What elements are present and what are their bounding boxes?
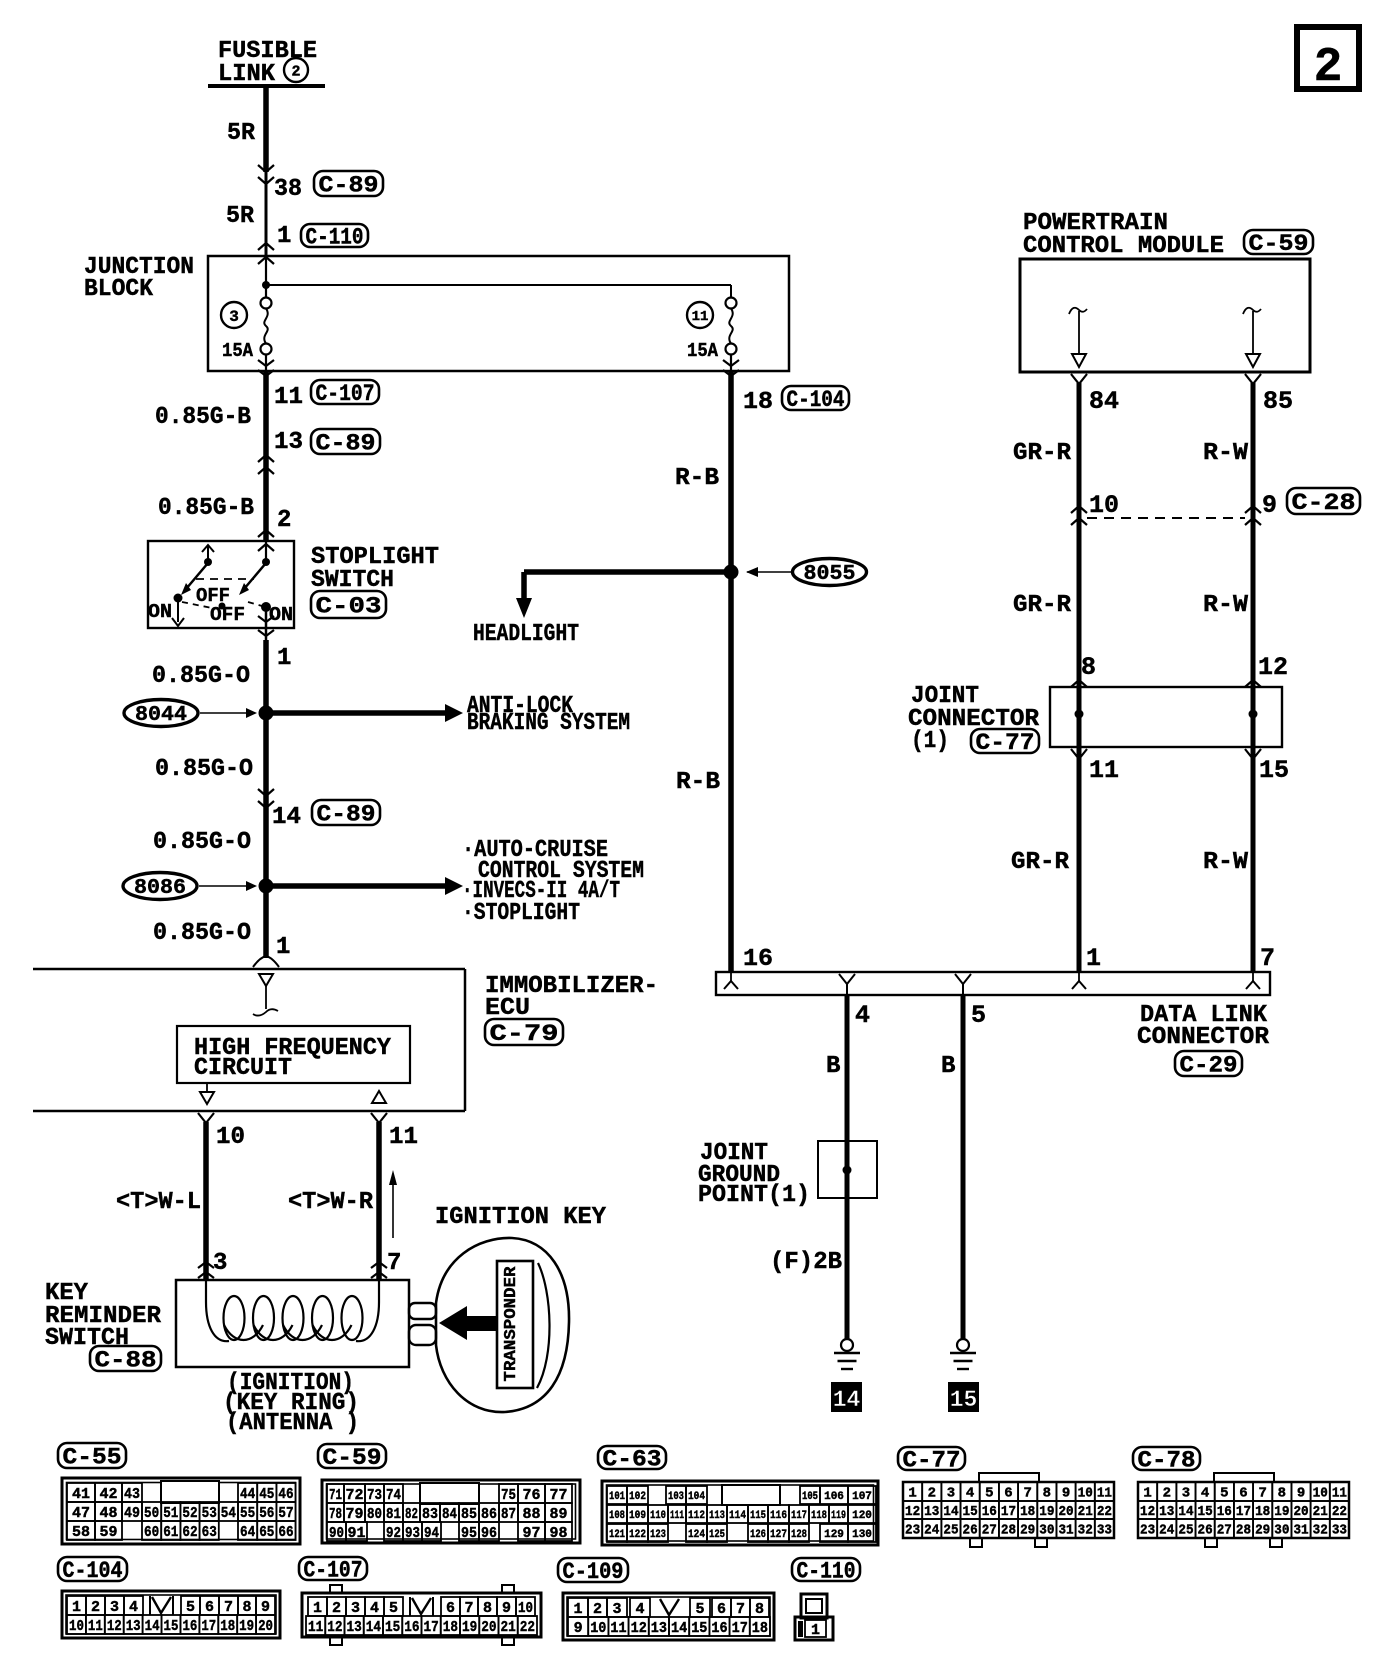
svg-text:8: 8 — [1278, 1486, 1286, 1502]
svg-text:GR-R: GR-R — [1013, 592, 1072, 619]
svg-text:118: 118 — [811, 1510, 827, 1522]
svg-text:108: 108 — [609, 1510, 625, 1522]
svg-text:C-77: C-77 — [903, 1447, 961, 1473]
svg-text:C-77: C-77 — [976, 730, 1035, 756]
svg-text:POINT(1): POINT(1) — [698, 1182, 810, 1209]
svg-text:26: 26 — [963, 1523, 978, 1539]
svg-text:4: 4 — [966, 1486, 974, 1502]
svg-text:113: 113 — [709, 1510, 725, 1522]
svg-text:C-88: C-88 — [95, 1347, 157, 1373]
svg-text:10: 10 — [590, 1620, 606, 1637]
svg-text:126: 126 — [750, 1529, 766, 1541]
svg-text:55: 55 — [240, 1505, 255, 1522]
svg-text:114: 114 — [729, 1510, 746, 1522]
svg-text:51: 51 — [163, 1505, 178, 1522]
svg-text:14: 14 — [272, 804, 301, 831]
svg-text:0.85G-B: 0.85G-B — [155, 404, 251, 431]
svg-text:47: 47 — [72, 1505, 90, 1522]
svg-text:48: 48 — [99, 1505, 117, 1522]
svg-text:7: 7 — [1023, 1486, 1031, 1502]
svg-text:15A: 15A — [687, 340, 719, 362]
svg-text:HEADLIGHT: HEADLIGHT — [473, 621, 579, 648]
svg-text:C-89: C-89 — [316, 430, 376, 456]
svg-text:66: 66 — [278, 1524, 293, 1541]
svg-text:15: 15 — [950, 1387, 978, 1413]
svg-text:C-89: C-89 — [319, 172, 379, 198]
svg-text:24: 24 — [924, 1523, 939, 1539]
svg-text:80: 80 — [367, 1506, 382, 1523]
svg-text:7: 7 — [224, 1599, 233, 1616]
svg-text:27: 27 — [982, 1523, 997, 1539]
svg-text:R-W: R-W — [1203, 592, 1249, 619]
svg-text:25: 25 — [943, 1523, 958, 1539]
svg-text:10: 10 — [1089, 491, 1119, 520]
svg-text:C-107: C-107 — [316, 381, 375, 407]
svg-text:88: 88 — [522, 1506, 540, 1523]
svg-text:11: 11 — [389, 1124, 418, 1151]
svg-text:0.85G-O: 0.85G-O — [155, 756, 253, 783]
svg-text:12: 12 — [327, 1619, 342, 1636]
svg-text:C-110: C-110 — [797, 1558, 856, 1584]
svg-text:17: 17 — [1236, 1504, 1251, 1520]
svg-text:16: 16 — [404, 1619, 419, 1636]
svg-text:4: 4 — [635, 1601, 644, 1618]
svg-text:C-29: C-29 — [1180, 1052, 1238, 1078]
svg-text:CIRCUIT: CIRCUIT — [194, 1055, 292, 1082]
svg-text:33: 33 — [1332, 1523, 1347, 1539]
svg-text:1: 1 — [313, 1600, 322, 1617]
svg-text:0.85G-O: 0.85G-O — [152, 663, 250, 690]
svg-text:4: 4 — [855, 1001, 870, 1030]
svg-text:C-89: C-89 — [317, 801, 376, 827]
svg-text:32: 32 — [1313, 1523, 1328, 1539]
svg-text:21: 21 — [501, 1619, 516, 1636]
svg-text:123: 123 — [650, 1529, 666, 1541]
svg-text:15: 15 — [963, 1504, 978, 1520]
svg-text:77: 77 — [549, 1487, 567, 1504]
svg-text:<T>W-R: <T>W-R — [288, 1189, 374, 1216]
svg-text:7: 7 — [736, 1601, 745, 1618]
svg-text:22: 22 — [1097, 1504, 1112, 1520]
svg-text:1: 1 — [277, 645, 291, 672]
svg-text:94: 94 — [424, 1525, 439, 1542]
svg-text:119: 119 — [831, 1510, 846, 1522]
svg-text:96: 96 — [481, 1525, 497, 1542]
svg-text:16: 16 — [182, 1618, 197, 1635]
svg-text:8055: 8055 — [804, 563, 856, 586]
svg-text:2: 2 — [1163, 1486, 1171, 1502]
svg-text:64: 64 — [240, 1524, 255, 1541]
svg-text:11: 11 — [274, 384, 303, 411]
svg-text:BLOCK: BLOCK — [84, 276, 154, 303]
svg-text:C-107: C-107 — [304, 1557, 363, 1583]
svg-text:22: 22 — [1332, 1504, 1347, 1520]
svg-text:2: 2 — [291, 63, 300, 80]
svg-text:C-28: C-28 — [1292, 490, 1356, 516]
svg-text:26: 26 — [1198, 1523, 1213, 1539]
svg-text:78: 78 — [329, 1506, 342, 1523]
svg-text:1: 1 — [1086, 944, 1101, 973]
svg-text:19: 19 — [1274, 1504, 1289, 1520]
svg-text:25: 25 — [1178, 1523, 1193, 1539]
svg-text:61: 61 — [163, 1524, 178, 1541]
svg-text:115: 115 — [750, 1510, 766, 1522]
svg-text:23: 23 — [1140, 1523, 1155, 1539]
svg-text:9: 9 — [261, 1599, 270, 1616]
svg-text:C-63: C-63 — [603, 1446, 662, 1472]
svg-text:57: 57 — [278, 1505, 293, 1522]
svg-text:C-110: C-110 — [306, 224, 364, 250]
svg-text:R-B: R-B — [676, 769, 720, 796]
svg-text:76: 76 — [522, 1487, 540, 1504]
svg-text:15: 15 — [1198, 1504, 1213, 1520]
svg-text:125: 125 — [709, 1529, 725, 1541]
svg-text:14: 14 — [145, 1618, 160, 1635]
svg-text:45: 45 — [259, 1486, 274, 1503]
svg-text:3: 3 — [1182, 1486, 1190, 1502]
svg-text:56: 56 — [259, 1505, 274, 1522]
svg-text:10: 10 — [69, 1618, 84, 1635]
svg-text:0.85G-B: 0.85G-B — [158, 495, 254, 522]
svg-text:109: 109 — [629, 1510, 646, 1522]
svg-text:16: 16 — [1217, 1504, 1232, 1520]
svg-text:8: 8 — [1043, 1486, 1051, 1502]
svg-text:13: 13 — [1159, 1504, 1174, 1520]
svg-text:11: 11 — [1332, 1486, 1347, 1502]
svg-text:20: 20 — [258, 1618, 273, 1635]
svg-text:10: 10 — [1078, 1486, 1093, 1502]
svg-text:63: 63 — [202, 1524, 217, 1541]
svg-text:14: 14 — [943, 1504, 958, 1520]
svg-text:87: 87 — [501, 1506, 516, 1523]
svg-text:53: 53 — [202, 1505, 217, 1522]
svg-text:16: 16 — [711, 1620, 727, 1637]
svg-text:12: 12 — [107, 1618, 122, 1635]
svg-text:12: 12 — [905, 1504, 920, 1520]
svg-text:121: 121 — [609, 1529, 625, 1541]
svg-text:21: 21 — [1078, 1504, 1093, 1520]
svg-text:18: 18 — [1255, 1504, 1270, 1520]
svg-text:2: 2 — [1314, 41, 1343, 95]
svg-text:2: 2 — [277, 507, 291, 534]
svg-text:73: 73 — [367, 1487, 382, 1504]
svg-text:95: 95 — [461, 1525, 477, 1542]
svg-text:112: 112 — [688, 1510, 705, 1522]
svg-text:8: 8 — [755, 1601, 764, 1618]
svg-text:3: 3 — [110, 1599, 119, 1616]
svg-text:C-59: C-59 — [323, 1445, 382, 1471]
svg-text:(1): (1) — [911, 728, 949, 755]
svg-text:27: 27 — [1217, 1523, 1232, 1539]
svg-text:41: 41 — [72, 1486, 90, 1503]
svg-text:85: 85 — [461, 1506, 477, 1523]
svg-text:GR-R: GR-R — [1011, 849, 1070, 876]
svg-text:5R: 5R — [227, 120, 256, 147]
svg-text:(F)2B: (F)2B — [770, 1249, 842, 1276]
svg-text:9: 9 — [1297, 1486, 1305, 1502]
svg-text:15: 15 — [385, 1619, 400, 1636]
svg-text:116: 116 — [770, 1510, 787, 1522]
svg-text:20: 20 — [481, 1619, 496, 1636]
svg-text:10: 10 — [1313, 1486, 1328, 1502]
svg-text:62: 62 — [182, 1524, 197, 1541]
svg-text:11: 11 — [308, 1619, 323, 1636]
svg-text:13: 13 — [126, 1618, 141, 1635]
svg-text:5: 5 — [695, 1601, 704, 1618]
svg-text:11: 11 — [88, 1618, 103, 1635]
svg-text:6: 6 — [446, 1600, 455, 1617]
svg-text:58: 58 — [72, 1524, 90, 1541]
svg-text:33: 33 — [1097, 1523, 1112, 1539]
svg-text:46: 46 — [278, 1486, 293, 1503]
svg-text:120: 120 — [852, 1510, 872, 1522]
svg-text:10: 10 — [216, 1124, 245, 1151]
svg-text:31: 31 — [1058, 1523, 1073, 1539]
svg-text:19: 19 — [1039, 1504, 1054, 1520]
svg-text:C-03: C-03 — [316, 593, 382, 619]
svg-text:C-78: C-78 — [1138, 1447, 1196, 1473]
svg-text:14: 14 — [833, 1387, 861, 1413]
svg-text:72: 72 — [345, 1487, 363, 1504]
svg-text:14: 14 — [671, 1620, 687, 1637]
svg-text:18: 18 — [220, 1618, 235, 1635]
svg-text:49: 49 — [124, 1505, 140, 1522]
svg-text:B: B — [941, 1053, 955, 1080]
svg-text:12: 12 — [1140, 1504, 1155, 1520]
svg-text:79: 79 — [345, 1506, 363, 1523]
svg-text:32: 32 — [1078, 1523, 1093, 1539]
svg-text:84: 84 — [1089, 387, 1119, 416]
svg-text:18: 18 — [443, 1619, 458, 1636]
svg-text:1: 1 — [573, 1601, 582, 1618]
svg-text:1: 1 — [908, 1486, 916, 1502]
svg-text:97: 97 — [522, 1525, 540, 1542]
svg-text:65: 65 — [259, 1524, 274, 1541]
svg-text:C-104: C-104 — [63, 1558, 123, 1584]
svg-text:1: 1 — [277, 223, 291, 250]
svg-text:0.85G-O: 0.85G-O — [153, 920, 251, 947]
svg-text:124: 124 — [688, 1529, 705, 1541]
svg-text:5: 5 — [389, 1600, 398, 1617]
svg-text:29: 29 — [1020, 1523, 1035, 1539]
svg-text:21: 21 — [1313, 1504, 1328, 1520]
svg-text:ON: ON — [148, 601, 172, 623]
svg-text:BRAKING SYSTEM: BRAKING SYSTEM — [467, 710, 630, 737]
svg-text:2: 2 — [928, 1486, 936, 1502]
svg-text:7: 7 — [464, 1600, 473, 1617]
svg-text:128: 128 — [791, 1529, 807, 1541]
svg-text:107: 107 — [852, 1491, 872, 1503]
svg-text:18: 18 — [1020, 1504, 1035, 1520]
svg-text:30: 30 — [1274, 1523, 1289, 1539]
svg-text:89: 89 — [549, 1506, 567, 1523]
svg-text:C-55: C-55 — [63, 1444, 122, 1470]
svg-text:C-59: C-59 — [1249, 231, 1309, 257]
svg-text:54: 54 — [221, 1505, 236, 1522]
svg-text:C-104: C-104 — [787, 387, 845, 413]
svg-text:98: 98 — [549, 1525, 567, 1542]
svg-text:17: 17 — [424, 1619, 439, 1636]
svg-text:38: 38 — [274, 176, 302, 203]
svg-text:60: 60 — [144, 1524, 159, 1541]
svg-text:17: 17 — [732, 1620, 748, 1637]
svg-text:1: 1 — [72, 1599, 81, 1616]
svg-text:28: 28 — [1236, 1523, 1251, 1539]
svg-text:5: 5 — [985, 1486, 993, 1502]
svg-text:6: 6 — [205, 1599, 214, 1616]
svg-text:111: 111 — [670, 1510, 684, 1522]
svg-text:10: 10 — [518, 1600, 533, 1617]
svg-text:14: 14 — [1178, 1504, 1193, 1520]
svg-text:0.85G-O: 0.85G-O — [153, 829, 251, 856]
svg-text:11: 11 — [1089, 756, 1119, 785]
svg-text:2: 2 — [593, 1601, 602, 1618]
svg-text:C-109: C-109 — [563, 1559, 624, 1585]
svg-text:11: 11 — [1097, 1486, 1112, 1502]
svg-text:85: 85 — [1263, 387, 1293, 416]
svg-text:7: 7 — [387, 1250, 401, 1277]
svg-text:3: 3 — [947, 1486, 955, 1502]
svg-text:19: 19 — [239, 1618, 254, 1635]
svg-text:1: 1 — [811, 1622, 820, 1639]
svg-text:17: 17 — [201, 1618, 216, 1635]
svg-text:91: 91 — [347, 1525, 365, 1542]
svg-text:·STOPLIGHT: ·STOPLIGHT — [462, 900, 580, 927]
svg-text:LINK: LINK — [218, 61, 276, 88]
svg-text:42: 42 — [99, 1486, 117, 1503]
svg-text:14: 14 — [366, 1619, 381, 1636]
svg-text:18: 18 — [752, 1620, 768, 1637]
svg-text:3: 3 — [229, 308, 239, 326]
svg-text:2: 2 — [91, 1599, 100, 1616]
svg-text:R-W: R-W — [1203, 440, 1249, 467]
svg-text:5: 5 — [971, 1001, 986, 1030]
svg-text:3: 3 — [213, 1250, 227, 1277]
svg-text:ON: ON — [269, 604, 293, 626]
svg-text:12: 12 — [631, 1620, 647, 1637]
svg-text:15A: 15A — [222, 340, 254, 362]
svg-text:90: 90 — [329, 1525, 344, 1542]
svg-text:50: 50 — [144, 1505, 159, 1522]
svg-text:8044: 8044 — [135, 704, 187, 727]
svg-text:86: 86 — [481, 1506, 497, 1523]
svg-text:103: 103 — [668, 1491, 684, 1503]
svg-text:7: 7 — [1258, 1486, 1266, 1502]
svg-text:82: 82 — [405, 1506, 418, 1523]
svg-text:130: 130 — [852, 1529, 872, 1541]
svg-text:IGNITION KEY: IGNITION KEY — [435, 1204, 607, 1231]
svg-text:102: 102 — [629, 1491, 646, 1503]
svg-text:31: 31 — [1293, 1523, 1308, 1539]
svg-text:20: 20 — [1058, 1504, 1073, 1520]
svg-text:19: 19 — [462, 1619, 477, 1636]
svg-text:B: B — [826, 1053, 840, 1080]
svg-text:101: 101 — [609, 1491, 625, 1503]
svg-text:6: 6 — [1004, 1486, 1012, 1502]
svg-text:9: 9 — [1262, 491, 1277, 520]
svg-text:5: 5 — [186, 1599, 195, 1616]
svg-text:104: 104 — [688, 1491, 705, 1503]
svg-text:74: 74 — [386, 1487, 401, 1504]
svg-text:2: 2 — [332, 1600, 341, 1617]
svg-text:5R: 5R — [226, 203, 255, 230]
svg-text:GR-R: GR-R — [1013, 440, 1072, 467]
svg-text:105: 105 — [802, 1491, 818, 1503]
svg-text:12: 12 — [1258, 653, 1288, 682]
svg-text:9: 9 — [574, 1620, 583, 1637]
svg-text:8086: 8086 — [134, 877, 186, 900]
svg-text:59: 59 — [99, 1524, 117, 1541]
svg-text:13: 13 — [924, 1504, 939, 1520]
svg-text:129: 129 — [824, 1529, 844, 1541]
svg-text:OFF: OFF — [210, 604, 245, 626]
svg-text:28: 28 — [1001, 1523, 1016, 1539]
svg-text:23: 23 — [905, 1523, 920, 1539]
svg-text:1: 1 — [1143, 1486, 1151, 1502]
svg-text:71: 71 — [329, 1487, 342, 1504]
svg-text:30: 30 — [1039, 1523, 1054, 1539]
svg-text:52: 52 — [182, 1505, 197, 1522]
svg-text:11: 11 — [692, 309, 709, 325]
svg-text:106: 106 — [824, 1491, 844, 1503]
svg-text:4: 4 — [370, 1600, 379, 1617]
svg-text:11: 11 — [610, 1620, 626, 1637]
svg-text:<T>W-L: <T>W-L — [116, 1189, 201, 1216]
svg-text:13: 13 — [651, 1620, 667, 1637]
svg-text:15: 15 — [691, 1620, 707, 1637]
svg-text:43: 43 — [124, 1486, 140, 1503]
svg-text:9: 9 — [502, 1600, 511, 1617]
svg-text:92: 92 — [386, 1525, 401, 1542]
svg-text:75: 75 — [501, 1487, 516, 1504]
svg-text:18: 18 — [743, 389, 773, 416]
svg-text:15: 15 — [1259, 756, 1289, 785]
svg-text:8: 8 — [1081, 653, 1096, 682]
svg-text:3: 3 — [612, 1601, 621, 1618]
svg-text:9: 9 — [1062, 1486, 1070, 1502]
svg-text:6: 6 — [717, 1601, 726, 1618]
svg-text:16: 16 — [982, 1504, 997, 1520]
svg-text:17: 17 — [1001, 1504, 1016, 1520]
svg-text:4: 4 — [129, 1599, 138, 1616]
svg-text:127: 127 — [770, 1529, 787, 1541]
svg-text:C-79: C-79 — [490, 1021, 559, 1047]
svg-text:4: 4 — [1201, 1486, 1209, 1502]
svg-text:16: 16 — [743, 946, 773, 973]
svg-text:7: 7 — [1260, 944, 1275, 973]
svg-text:117: 117 — [791, 1510, 807, 1522]
svg-text:44: 44 — [240, 1486, 255, 1503]
svg-text:3: 3 — [351, 1600, 360, 1617]
svg-text:R-W: R-W — [1203, 849, 1249, 876]
svg-text:6: 6 — [1239, 1486, 1247, 1502]
svg-text:24: 24 — [1159, 1523, 1174, 1539]
svg-text:93: 93 — [405, 1525, 420, 1542]
svg-text:5: 5 — [1220, 1486, 1228, 1502]
svg-text:84: 84 — [442, 1506, 457, 1523]
svg-text:83: 83 — [422, 1506, 438, 1523]
svg-text:R-B: R-B — [675, 465, 719, 492]
svg-text:TRANSPONDER: TRANSPONDER — [502, 1266, 521, 1382]
svg-text:8: 8 — [242, 1599, 251, 1616]
svg-text:13: 13 — [347, 1619, 362, 1636]
svg-text:CONNECTOR: CONNECTOR — [1137, 1024, 1270, 1051]
svg-text:15: 15 — [164, 1618, 179, 1635]
svg-text:81: 81 — [386, 1506, 401, 1523]
svg-text:13: 13 — [274, 429, 303, 456]
svg-text:CONTROL MODULE: CONTROL MODULE — [1023, 233, 1224, 260]
svg-text:20: 20 — [1293, 1504, 1308, 1520]
